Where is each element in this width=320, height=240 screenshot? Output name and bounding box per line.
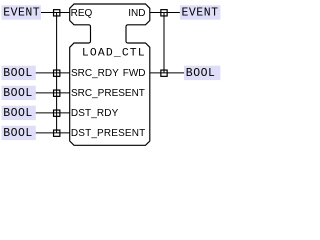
label background BOOL left row2 — [2, 66, 36, 80]
connector square left row2 — [54, 70, 60, 76]
connector square left row3 — [54, 90, 60, 96]
wire left vertical bus — [56, 13, 58, 133]
connector square right row2 — [161, 70, 167, 76]
svg-text:BOOL: BOOL — [3, 67, 33, 80]
wire REQ input — [41, 12, 70, 14]
wire SRC_RDY input — [36, 72, 70, 74]
wire DST_PRESENT input — [36, 132, 70, 134]
label background BOOL left row5 — [2, 126, 36, 140]
svg-text:DST_PRESENT: DST_PRESENT — [71, 128, 145, 139]
svg-text:BOOL: BOOL — [3, 87, 33, 100]
label background BOOL left row3 — [2, 86, 36, 100]
svg-text:BOOL: BOOL — [3, 127, 33, 140]
svg-text:DST_RDY: DST_RDY — [71, 108, 119, 119]
connector square left row1 — [54, 10, 60, 16]
svg-text:SRC_PRESENT: SRC_PRESENT — [71, 88, 145, 99]
wire IND output — [150, 12, 180, 14]
svg-text:BOOL: BOOL — [3, 107, 33, 120]
svg-text:LOAD_CTL: LOAD_CTL — [82, 47, 146, 59]
connector square left row4 — [54, 110, 60, 116]
wire right vertical bus — [163, 13, 165, 73]
svg-text:BOOL: BOOL — [186, 67, 216, 80]
connector square right row1 — [161, 10, 167, 16]
svg-text:IND: IND — [128, 8, 145, 19]
label background EVENT right — [180, 5, 221, 19]
connector square left row5 — [54, 130, 60, 136]
label background BOOL right — [184, 66, 220, 80]
svg-text:EVENT: EVENT — [3, 7, 40, 20]
svg-text:EVENT: EVENT — [182, 7, 219, 20]
wire FWD output — [150, 72, 184, 74]
svg-text:FWD: FWD — [123, 68, 146, 79]
function block LOAD_CTL outline — [70, 4, 150, 145]
svg-text:SRC_RDY: SRC_RDY — [71, 68, 119, 79]
wire DST_RDY input — [36, 112, 70, 114]
label background EVENT left — [2, 5, 42, 19]
svg-text:REQ: REQ — [71, 8, 93, 19]
label background BOOL left row4 — [2, 106, 36, 120]
wire SRC_PRESENT input — [36, 92, 70, 94]
